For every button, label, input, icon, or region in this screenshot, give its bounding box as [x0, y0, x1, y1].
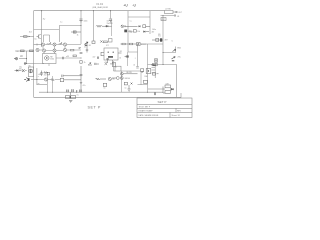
wire bottom rail A [39, 91, 163, 93]
zobel cluster bottom right [163, 85, 174, 93]
wire y79.5 short [31, 79, 37, 81]
capacitor C5 [63, 57, 64, 59]
svg-text:100n: 100n [152, 29, 156, 31]
box pair bias lower [141, 69, 151, 74]
box small x47 y72.5 [47, 72, 49, 75]
svg-text:1k: 1k [77, 35, 79, 37]
vert x47.5 [47, 75, 49, 92]
box x143-148 [144, 80, 148, 83]
cap x106 y58 [107, 58, 109, 59]
svg-text:(MB_JEA1) MOR: (MB_JEA1) MOR [93, 6, 109, 9]
wire y44 to 163 [140, 43, 163, 45]
component left of VAS [86, 44, 88, 53]
connector J2 box [161, 18, 166, 21]
wire input y58.5 [19, 58, 27, 60]
capacitor C1 [25, 62, 26, 65]
box below x103 [103, 83, 106, 86]
wire left border vertical [33, 11, 35, 98]
driver cluster x120-132 y56-60 [125, 55, 129, 57]
svg-text:OUT: OUT [162, 19, 165, 21]
ticks x137.5 [136, 67, 138, 69]
svg-text:SET P: SET P [158, 100, 167, 104]
diode row right [144, 31, 150, 33]
svg-text:L1 R30: L1 R30 [165, 8, 171, 10]
wire x111.6 vert [111, 19, 113, 37]
svg-text:2k: 2k [84, 62, 86, 64]
transistor Q20 [44, 78, 47, 81]
svg-text:25v: 25v [44, 75, 47, 77]
component x154-158 y92-95 [155, 93, 156, 96]
resistor R10 vertical [34, 44, 42, 46]
trimmer X1 [100, 40, 102, 42]
resistor R15 [73, 55, 76, 57]
wire vertical x59.3 [58, 26, 60, 43]
wire c5 right [64, 57, 81, 59]
VAS box mid [104, 48, 118, 60]
left pins output dev [152, 66, 156, 74]
gnd mark x127-131 y86-92 [128, 85, 131, 91]
svg-text:DATE: VALMIE DSFGB: DATE: VALMIE DSFGB [139, 114, 160, 117]
wire y29.4 cross [34, 28, 60, 30]
vert x147.5 [147, 72, 149, 92]
svg-text:IC2: IC2 [106, 45, 109, 47]
wire y36.5 left [20, 36, 34, 38]
cap pair [95, 63, 99, 65]
svg-text:ne: ne [125, 88, 127, 90]
mid lower cluster x78-84 y74-86 [80, 66, 83, 92]
pin ticks x81 [79, 48, 81, 49]
wire vertical x163 output node [162, 16, 164, 65]
wire u1 out [56, 57, 62, 59]
transistor Q6 [42, 49, 45, 52]
capacitor C20 out [176, 11, 177, 13]
title block outer [137, 98, 192, 118]
svg-text:1k2: 1k2 [29, 32, 32, 34]
wire VAS box top [128, 16, 150, 18]
svg-text:5534: 5534 [50, 59, 54, 61]
resistor R12 [71, 49, 74, 51]
transistor Q1 box [28, 67, 33, 77]
wire r12 to x81 [74, 49, 81, 51]
wire y84.5 mid [138, 84, 148, 86]
VAS pins bottom [108, 60, 113, 63]
wire second vertical x41.6 [41, 11, 43, 47]
wire x127.5 [127, 52, 129, 66]
svg-text:BD140: BD140 [125, 78, 130, 80]
svg-text:1u: 1u [60, 22, 62, 24]
polarized cap C3 [24, 78, 29, 82]
resistor box lower [124, 82, 127, 85]
wire row stubs [43, 46, 65, 53]
resistor R22 squiggle y26 [96, 25, 106, 27]
svg-text:=: = [135, 58, 136, 60]
junction dots [26, 10, 164, 93]
wire vertical x128 [127, 11, 129, 52]
VAS pins left [101, 52, 104, 56]
svg-text:911: 911 [158, 36, 161, 38]
svg-text:c9: c9 [21, 56, 23, 58]
capacitor mid low [62, 75, 81, 78]
capacitor C10 top left [79, 19, 82, 23]
diode D3 [106, 25, 112, 27]
resistor R3 left [24, 36, 31, 38]
wire driver to output y64.5 [148, 64, 164, 66]
vert x141 [140, 72, 142, 85]
emitter resistors above rail [67, 89, 81, 92]
box2 [133, 30, 136, 32]
components x150-163 y38-42 [152, 38, 163, 41]
svg-text:LS: LS [177, 16, 180, 18]
svg-text:-U: -U [133, 3, 137, 7]
wire speaker line y89 [148, 88, 163, 90]
wire bottom rail B [34, 93, 181, 97]
svg-text:22p: 22p [105, 62, 108, 64]
top row y43-45 right section [121, 43, 141, 46]
diode D2 [85, 42, 88, 45]
svg-text:3w: 3w [43, 19, 46, 21]
capacitor on x81 y52 [80, 52, 83, 53]
svg-text:63v: 63v [19, 69, 22, 71]
wire vertical x150 [149, 11, 151, 34]
svg-text:=: = [38, 76, 39, 78]
vert x113.5 [113, 61, 115, 71]
resistor R1 [21, 50, 25, 52]
transistor Q4 [63, 43, 66, 46]
svg-text:VR: VR [120, 51, 123, 53]
vertical x147.5 upper [147, 44, 149, 72]
wire y79.5 row links [37, 79, 81, 81]
svg-text:4R7: 4R7 [165, 40, 168, 42]
wire feedback y63.5 [24, 63, 44, 65]
trimmer RV1 [22, 69, 27, 72]
svg-text:B1: B1 [89, 45, 91, 47]
wire vertical x81 [80, 11, 82, 44]
svg-text:4k7: 4k7 [152, 31, 155, 33]
label right edge pins [151, 59, 157, 65]
resistor on x81 y61 [80, 61, 82, 64]
resistor R45 on y64.5 [153, 63, 158, 66]
cluster x152-158 y72-78 [153, 73, 159, 76]
diode D1 row [15, 70, 22, 72]
wire input row y51 [15, 50, 34, 52]
trimmer x2 [105, 63, 108, 66]
trimmer lower [131, 83, 133, 85]
arrow sym [88, 63, 92, 66]
output transistor arrow top [173, 49, 176, 51]
svg-text:SET P: SET P [88, 106, 101, 110]
components y25-27 left of box [121, 25, 150, 28]
cap right mid [98, 57, 99, 59]
svg-text:n33: n33 [66, 56, 69, 58]
transistor Q7 [53, 49, 56, 52]
svg-text:R40: R40 [145, 76, 148, 78]
svg-text:0v: 0v [77, 95, 79, 97]
svg-text:n1: n1 [84, 47, 86, 49]
arrow mark between q3 q4 [60, 43, 62, 45]
svg-text:ls: ls [172, 40, 173, 42]
svg-text:BD139: BD139 [141, 44, 146, 46]
wire vertical x93.4 [92, 11, 94, 41]
resistor box end x93 [92, 41, 95, 44]
svg-text:Sheet: 1/1: Sheet: 1/1 [172, 114, 181, 117]
wire speaker feed y15.5 [161, 15, 175, 17]
arrow mark between q2 q3 [49, 43, 51, 45]
cluster x100-116 y76-82 [96, 77, 112, 80]
svg-text:100n: 100n [84, 21, 88, 23]
resistor R2 [30, 50, 34, 52]
wire vertical x121.5 down [121, 71, 123, 92]
svg-text:bw: bw [35, 39, 38, 41]
VAS pins right [118, 52, 122, 54]
vert x155.2 [154, 63, 156, 78]
wire y84.5 [37, 84, 47, 86]
svg-text:TITLE: SET P: TITLE: SET P [139, 106, 151, 108]
wire vertical x110.5 [110, 11, 112, 19]
wire y71 link [114, 70, 141, 72]
svg-text:n5: n5 [119, 58, 121, 60]
wire q5-q8 row [40, 49, 71, 52]
wire vertical x36.9 [36, 68, 38, 85]
inductor L1 output box [165, 11, 177, 14]
transistor Q3 [53, 43, 56, 46]
component x60-64 [60, 78, 63, 81]
svg-text:F1 F2: F1 F2 [97, 3, 104, 6]
svg-text:47u: 47u [83, 85, 86, 87]
box below [112, 63, 115, 67]
wire y52 h [128, 51, 138, 53]
box dark [124, 30, 127, 33]
transistor Q8 [63, 48, 66, 51]
transistor Q5 [36, 48, 39, 51]
capacitor C21 [174, 15, 175, 17]
squiggle [129, 31, 133, 33]
box vbe multiplier [115, 66, 121, 71]
transistor Q10 [37, 34, 41, 39]
resistor vert x42-46 y73-77 [44, 72, 49, 74]
transistor Q2 [41, 43, 44, 46]
box small x108 [109, 39, 113, 43]
svg-text:BD: BD [158, 34, 161, 36]
wire top supply rail [34, 10, 165, 12]
capacitor C2 [40, 71, 42, 77]
opamp box U1 [43, 54, 57, 64]
svg-text:10k: 10k [137, 31, 140, 33]
transistor QD2 [112, 77, 123, 80]
svg-text:RIGARY TEAM?: RIGARY TEAM? [139, 110, 153, 113]
svg-text:un: un [38, 83, 40, 85]
svg-text:Lu: Lu [130, 21, 132, 23]
squiggle r [51, 79, 55, 81]
wire output tap to terminal [163, 47, 176, 53]
svg-text:OUT: OUT [178, 12, 183, 14]
svg-text:+U: +U [124, 3, 129, 7]
wire front row [45, 44, 81, 46]
svg-text:GND: GND [177, 48, 182, 50]
resistor R21 y32 [71, 31, 81, 33]
svg-text:ne: ne [104, 88, 106, 90]
wire output return loop [163, 65, 177, 98]
wire mid rail y25.5 [59, 25, 81, 27]
svg-text:4u7: 4u7 [93, 57, 96, 59]
wire below u1 [48, 64, 50, 67]
svg-text:BD139: BD139 [127, 72, 132, 74]
ground cluster mid [66, 92, 76, 102]
resistor R20 [104, 41, 108, 43]
svg-text:2SC: 2SC [178, 57, 182, 59]
capacitor C11 top mid [109, 19, 112, 23]
output transistor arrow bottom [172, 56, 176, 60]
svg-text:BD: BD [113, 79, 116, 81]
svg-text:vb: vb [133, 65, 135, 67]
wire bias box verticals [44, 35, 50, 42]
vert x52.5 [52, 76, 54, 92]
connector input jack [14, 57, 18, 60]
transistor QD1 [120, 72, 137, 75]
wire input node vertical x26.5 [26, 51, 28, 64]
wire vertical x137.5 [137, 44, 139, 66]
